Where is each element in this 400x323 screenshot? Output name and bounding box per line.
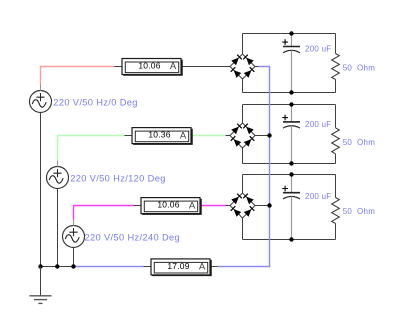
junction C2 bottom / rail	[289, 161, 293, 165]
svg-text:200 uF: 200 uF	[305, 192, 331, 201]
svg-text:200 uF: 200 uF	[305, 120, 331, 129]
junction V3 / neutral bus	[71, 264, 75, 268]
wire: ammeter A3 left lead	[134, 205, 141, 207]
svg-text:220 V/50 Hz/0 Deg: 220 V/50 Hz/0 Deg	[53, 98, 138, 108]
U2 top-left diode (AC L to +)	[231, 127, 239, 135]
junction C2 top / rail	[289, 102, 293, 106]
capacitor C3 top lead	[291, 175, 293, 193]
svg-text:50 Ohm: 50 Ohm	[343, 63, 376, 72]
wire: U2 + output to top rail	[242, 105, 244, 124]
wire: magenta ammeter A3 to bridge U3 left AC terminal	[201, 205, 227, 207]
U2 bottom-left diode (- to AC L)	[234, 139, 242, 147]
svg-text:A: A	[199, 262, 206, 273]
wire: U3 - output to bottom rail	[242, 218, 244, 240]
source V2 bottom lead + wire to neutral bus	[57, 188, 59, 266]
svg-text:50 Ohm: 50 Ohm	[343, 207, 376, 216]
wire: unit1 top rail (bridge1 + to C1/R1)	[243, 33, 336, 35]
junction V2 / neutral bus	[55, 264, 59, 268]
wire: right rail below R2	[335, 154, 337, 164]
junction bridge U2 right AC / neutral riser	[267, 133, 271, 137]
U2 bottom-right diode (- to AC R)	[244, 139, 252, 147]
capacitor C1 bottom lead	[291, 50, 293, 92]
svg-text:A: A	[170, 61, 177, 72]
wire: right rail below R3	[335, 224, 337, 240]
wire: unit3 bottom rail	[243, 239, 336, 241]
svg-text:220 V/50 Hz/120 Deg: 220 V/50 Hz/120 Deg	[70, 174, 166, 184]
bridge rectifier U3	[230, 193, 255, 218]
svg-text:10.06: 10.06	[157, 200, 179, 210]
source V3 top lead	[73, 220, 75, 226]
ammeter A4 indicator box	[151, 259, 211, 276]
wire: right rail below R1	[335, 80, 337, 93]
svg-text:A: A	[189, 200, 196, 211]
wire: green ammeter A2 to bridge U2 left AC terminal	[192, 135, 226, 137]
wire: ammeter A4 left lead	[144, 266, 151, 268]
wire: right rail above R1	[335, 34, 337, 54]
capacitor C1 polarity +	[282, 39, 288, 45]
wire: U1 + output to top rail	[242, 34, 244, 55]
svg-text:10.36: 10.36	[148, 130, 170, 140]
wire: unit2 bottom rail	[243, 163, 336, 165]
junction C3 bottom / rail	[289, 237, 293, 241]
source V3 bottom lead + wire to neutral bus	[73, 247, 75, 266]
capacitor C2 bottom lead	[291, 126, 293, 164]
capacitor C2 top lead	[291, 105, 293, 122]
wire: ammeter A4 right lead	[211, 266, 218, 268]
junction C3 top / rail	[289, 172, 293, 176]
bridge rectifier U2	[230, 123, 255, 148]
svg-text:200 uF: 200 uF	[305, 45, 331, 54]
U3 bottom-right diode (- to AC R)	[244, 209, 252, 217]
svg-text:220 V/50 Hz/240 Deg: 220 V/50 Hz/240 Deg	[85, 233, 181, 243]
U1 bottom-left diode (- to AC L)	[234, 70, 242, 78]
wire: U3 + output to top rail	[242, 175, 244, 194]
wire: phase C (magenta) V3 to ammeter A3	[74, 206, 134, 221]
source V2 top lead	[57, 161, 59, 167]
junction V1 / ground node	[38, 264, 42, 268]
U3 top-right diode (AC R to +)	[246, 197, 254, 205]
capacitor C3 plates	[283, 192, 300, 194]
wire: U2 right AC lead	[255, 135, 270, 137]
junction C1 bottom / rail	[289, 90, 293, 94]
ammeter A1 indicator box	[122, 59, 182, 76]
wire: U2 - output to bottom rail	[242, 148, 244, 164]
resistor R3	[332, 198, 340, 224]
U1 top-right diode (AC R to +)	[246, 58, 254, 66]
wire: U1 - output to bottom rail	[242, 79, 244, 93]
wire: phase B (green) V2 to ammeter A2	[58, 136, 125, 161]
U3 bottom-left diode (- to AC L)	[234, 209, 242, 217]
wire: blue neutral return riser	[218, 67, 270, 267]
wire: U1 right AC lead	[255, 66, 259, 68]
wire: unit2 top rail	[243, 104, 336, 106]
capacitor C3 bottom lead	[291, 196, 293, 239]
AC voltage source V2	[47, 167, 69, 189]
wire: ammeter A2 left lead	[125, 135, 132, 137]
source V1 top lead	[40, 84, 42, 91]
ammeter A3 indicator box	[141, 198, 201, 215]
wire: ammeter A1 to bridge U1 left AC terminal	[182, 66, 231, 68]
wire: right rail above R2	[335, 105, 337, 128]
capacitor C2 polarity +	[282, 115, 288, 121]
ammeter A2 indicator box	[132, 128, 192, 145]
wire: unit1 bottom rail	[243, 92, 336, 94]
AC voltage source V3	[63, 226, 85, 248]
source V1 bottom lead + wire to neutral bus	[40, 112, 42, 266]
wire: U3 right AC lead	[255, 205, 270, 207]
U1 bottom-right diode (- to AC R)	[244, 70, 252, 78]
wire: unit3 top rail	[243, 174, 336, 176]
resistor R2	[332, 128, 340, 154]
bridge rectifier U1	[230, 54, 255, 79]
svg-text:17.09: 17.09	[167, 261, 189, 271]
svg-text:A: A	[180, 130, 187, 141]
wire: right rail above R3	[335, 175, 337, 198]
U3 top-left diode (AC L to +)	[231, 197, 239, 205]
capacitor C1 top lead	[291, 34, 293, 47]
U2 top-right diode (AC R to +)	[246, 127, 254, 135]
capacitor C3 polarity +	[282, 186, 288, 192]
svg-text:10.06: 10.06	[138, 61, 160, 71]
wire: neutral bus (black)	[41, 266, 74, 268]
svg-text:50 Ohm: 50 Ohm	[343, 138, 376, 147]
wire: ammeter A1 left lead	[115, 66, 122, 68]
capacitor C1 plates	[283, 46, 300, 48]
junction C1 top / rail	[289, 31, 293, 35]
ground symbol	[30, 267, 52, 304]
junction bridge U3 right AC / neutral riser	[267, 203, 271, 207]
wire: neutral (blue) bus to ammeter A4	[74, 266, 144, 268]
resistor R1	[332, 54, 340, 80]
AC voltage source V1	[30, 91, 52, 113]
wire: phase A (red) V1 to ammeter A1	[41, 67, 115, 84]
capacitor C2 plates	[283, 121, 300, 123]
U1 top-left diode (AC L to +)	[231, 58, 239, 66]
